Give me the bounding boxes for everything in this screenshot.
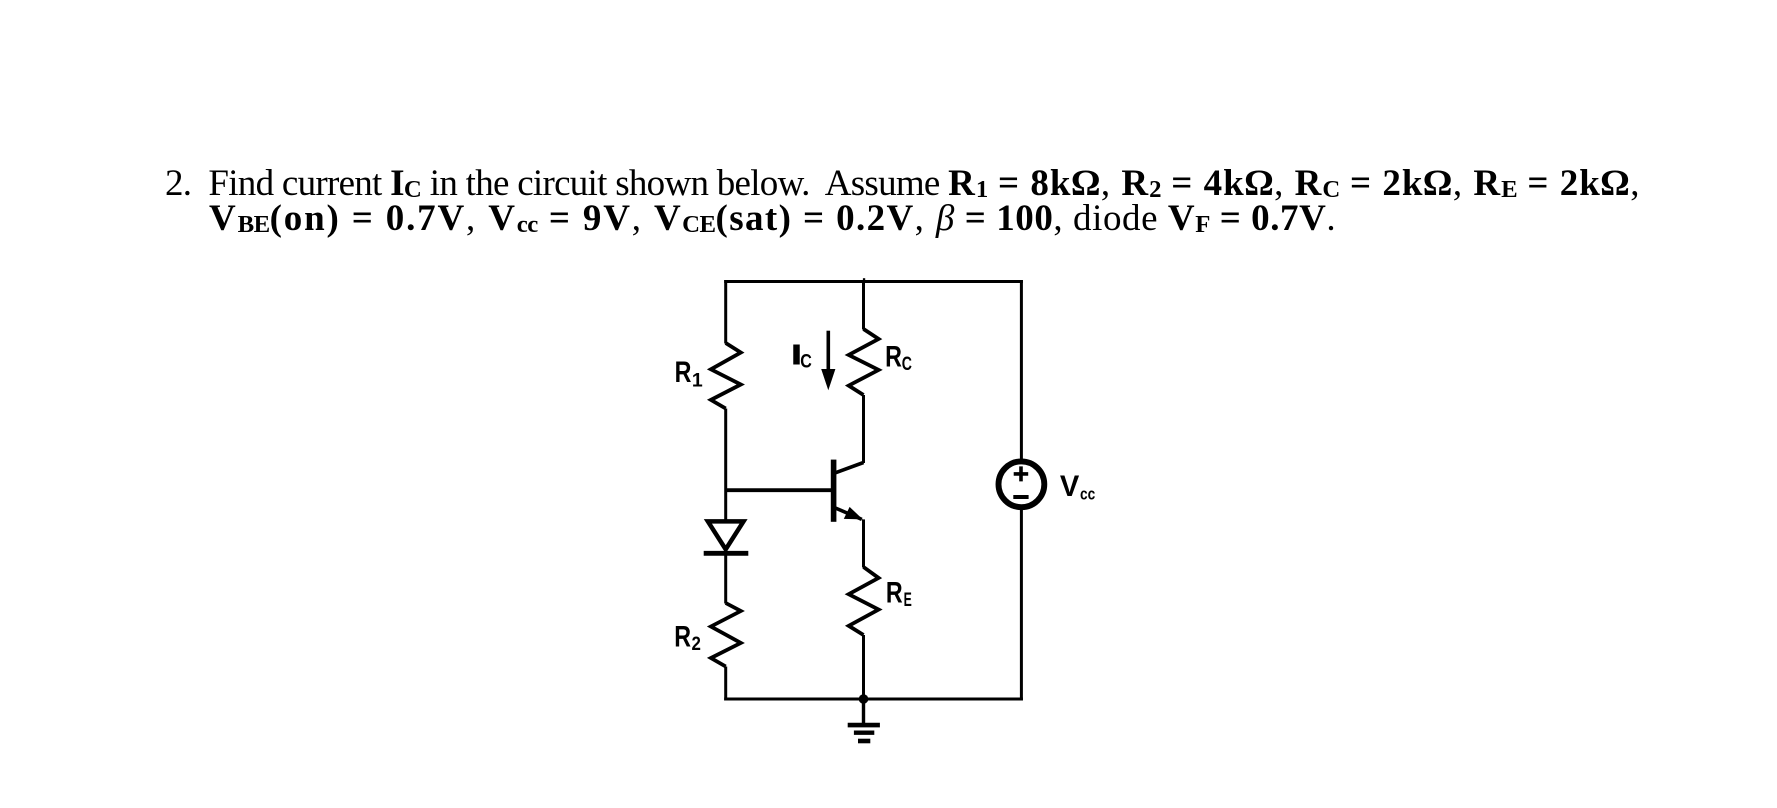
wire: right branch from top rail to Vcc source <box>1020 280 1023 459</box>
ground bar 3 <box>858 739 870 744</box>
wire: middle branch from RE to bottom rail <box>862 635 865 699</box>
resistor RE <box>849 567 879 635</box>
junction nub above top rail at middle branch <box>863 278 865 281</box>
svg-text:E: E <box>904 590 912 611</box>
wire: middle branch from top rail to RC <box>862 280 865 330</box>
wire: collector wire from RC to transistor <box>862 395 865 463</box>
diode D1 cathode bar <box>704 551 749 556</box>
svg-text:1: 1 <box>692 369 703 391</box>
wire: top rail <box>724 280 1023 283</box>
voltage source Vcc circle <box>999 461 1045 507</box>
wire: emitter wire from transistor to RE <box>862 519 865 567</box>
transistor Q1 base bar <box>831 460 837 522</box>
ground bar 2 <box>854 731 874 735</box>
wire: left branch from R1 to diode (through base node) <box>724 409 727 524</box>
svg-text:R: R <box>674 620 691 653</box>
svg-text:V: V <box>1060 470 1080 503</box>
wire: left branch from diode to R2 <box>724 553 727 603</box>
transistor Q1 emitter arrowhead <box>844 507 863 520</box>
problem statement line 1 <box>165 165 1640 202</box>
voltage source minus sign <box>1013 495 1028 499</box>
ground bar 1 <box>848 723 880 728</box>
wire: left branch from R2 to bottom rail <box>724 667 727 701</box>
voltage source plus sign <box>1014 466 1028 481</box>
wire: right branch from Vcc source to bottom rail <box>1020 510 1023 701</box>
svg-text:R: R <box>885 341 902 374</box>
diode D1 triangle (anode) <box>708 521 744 549</box>
svg-text:cc: cc <box>1080 486 1095 504</box>
junction dot at ground node <box>859 694 869 704</box>
resistor RC <box>849 329 879 395</box>
current arrow IC <box>826 331 830 371</box>
problem statement line 2 <box>209 200 1336 237</box>
wire: left branch from top rail to R1 <box>724 280 727 344</box>
transistor Q1 emitter lead <box>835 508 862 520</box>
transistor Q1 collector lead <box>835 463 864 473</box>
ground stub <box>862 699 865 723</box>
svg-text:R: R <box>675 356 692 389</box>
svg-text:R: R <box>886 576 903 609</box>
svg-text:2: 2 <box>692 633 702 655</box>
svg-text:C: C <box>800 350 812 372</box>
resistor R2 <box>711 603 741 667</box>
wire: bottom rail <box>724 698 1023 701</box>
wire: base wire from left branch to transistor base <box>726 488 832 492</box>
resistor R1 <box>711 343 741 409</box>
svg-text:C: C <box>902 354 912 375</box>
